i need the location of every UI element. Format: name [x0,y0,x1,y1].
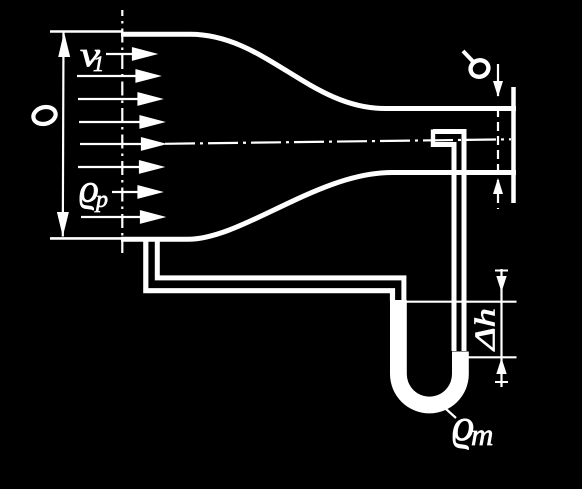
svg-text:Δh: Δh [470,308,501,351]
svg-text:p: p [94,187,108,213]
svg-text:1: 1 [93,51,104,76]
svg-text:m: m [471,417,493,452]
